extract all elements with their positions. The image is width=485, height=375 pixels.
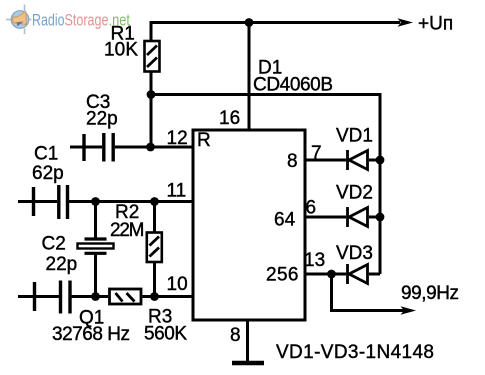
svg-text:+Uп: +Uп	[418, 14, 453, 35]
svg-text:7: 7	[311, 143, 322, 164]
svg-text:R: R	[197, 130, 211, 151]
svg-text:CD4060B: CD4060B	[253, 75, 333, 96]
svg-text:11: 11	[167, 181, 187, 202]
svg-text:560K: 560K	[144, 324, 187, 345]
svg-text:8: 8	[230, 325, 241, 346]
svg-text:62p: 62p	[32, 163, 64, 184]
svg-text:Radio: Radio	[32, 10, 65, 29]
svg-text:22p: 22p	[46, 254, 78, 275]
svg-text:8: 8	[287, 151, 298, 172]
svg-text:C2: C2	[42, 234, 66, 255]
svg-text:32768 Hz: 32768 Hz	[52, 324, 130, 345]
svg-text:10: 10	[167, 274, 188, 295]
svg-text:VD3: VD3	[336, 243, 373, 264]
svg-text:12: 12	[167, 128, 188, 149]
svg-text:6: 6	[306, 198, 317, 219]
svg-text:22M: 22M	[110, 220, 145, 241]
svg-text:VD1-VD3-1N4148: VD1-VD3-1N4148	[276, 342, 434, 363]
svg-text:16: 16	[219, 108, 240, 129]
svg-text:10K: 10K	[104, 40, 138, 61]
svg-text:VD1: VD1	[336, 126, 373, 147]
svg-text:64: 64	[274, 210, 296, 231]
svg-text:.net: .net	[109, 10, 131, 29]
svg-text:Storage: Storage	[65, 10, 109, 29]
svg-text:C1: C1	[34, 144, 58, 165]
svg-text:256: 256	[266, 265, 299, 286]
svg-text:22p: 22p	[86, 109, 118, 130]
svg-text:VD2: VD2	[336, 183, 373, 204]
svg-text:13: 13	[304, 250, 325, 271]
svg-text:99,9Hz: 99,9Hz	[401, 283, 459, 304]
